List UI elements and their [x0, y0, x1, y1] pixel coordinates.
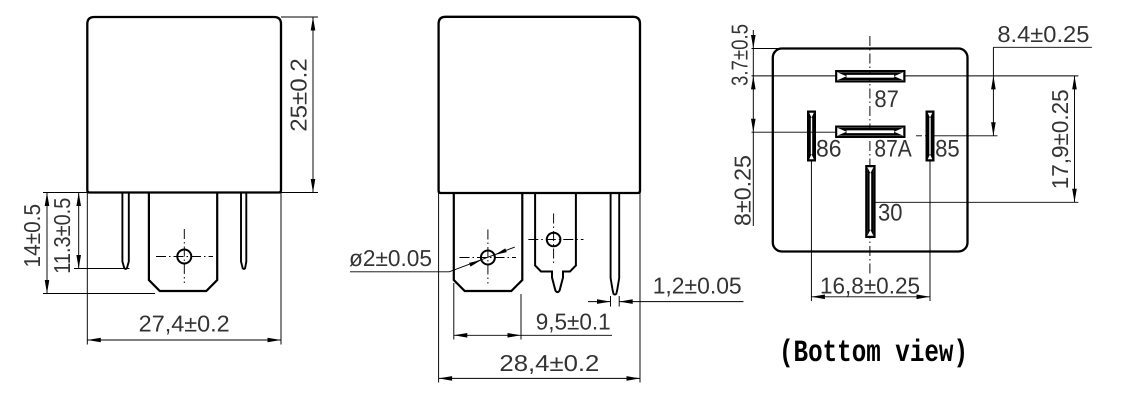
pin with hole side view [535, 193, 576, 292]
dimension line 16.8 [811, 296, 930, 298]
svg-text:17,9±0.25: 17,9±0.25 [1047, 89, 1073, 189]
extension line top edge left [752, 48, 780, 50]
terminal tab side view [454, 193, 523, 291]
svg-text:(Bottom view): (Bottom view) [779, 336, 968, 371]
extension lines 27.4 dim [87, 193, 281, 345]
svg-text:25±0.2: 25±0.2 [286, 58, 312, 132]
svg-text:86: 86 [816, 136, 842, 163]
svg-text:27,4±0.2: 27,4±0.2 [139, 311, 230, 337]
centerlines middle pin hole [528, 239, 583, 241]
pin front-right thin [241, 193, 246, 269]
svg-text:87: 87 [874, 86, 899, 113]
slot 85 [927, 112, 934, 161]
dimension line 25 [312, 17, 314, 193]
svg-text:30: 30 [878, 200, 903, 227]
dimension line 17.9 [1074, 76, 1076, 202]
dimension line 1.2 with outside arrows [588, 301, 744, 303]
svg-text:11.3±0.5: 11.3±0.5 [49, 198, 75, 274]
pin side-view thin right [611, 193, 620, 295]
dimension line left column 3.7 and 8 [752, 30, 754, 226]
extension line body bottom left [43, 192, 87, 194]
extension lines 25 dim [281, 17, 318, 193]
dimension line 14 [46, 193, 48, 294]
svg-text:1,2±0.05: 1,2±0.05 [653, 273, 742, 299]
svg-text:3.7±0.5: 3.7±0.5 [727, 24, 753, 86]
pin front-left thin [122, 193, 128, 269]
svg-text:8.4±0.25: 8.4±0.25 [997, 21, 1089, 47]
slot 30 [866, 166, 874, 237]
terminal tab front center [149, 193, 217, 292]
hole in front tab [177, 250, 191, 264]
extension lines 1.2 dim [611, 296, 620, 307]
slot 87A [836, 127, 904, 138]
dimension line 28.4 [439, 377, 640, 379]
dimension line 11.3 [78, 193, 80, 269]
hole in side tab [481, 251, 495, 265]
svg-text:28,4±0.2: 28,4±0.2 [499, 350, 599, 376]
centerlines side tab hole [460, 257, 517, 259]
slot 87 [836, 71, 904, 82]
svg-text:85: 85 [935, 136, 960, 163]
extension line 85 row center [916, 135, 927, 137]
svg-text:9,5±0.1: 9,5±0.1 [536, 309, 611, 335]
slot 86 [808, 112, 815, 161]
svg-text:8±0.25: 8±0.25 [730, 155, 756, 226]
extension lines 16.8 dim [811, 161, 930, 302]
extension lines 9.5 dim [454, 283, 521, 340]
centerline vertical front tab hole [183, 229, 185, 283]
extension lines 28.4 dim [439, 193, 640, 383]
relay base bottom view [773, 49, 968, 252]
extension line 87A slot center [752, 131, 837, 133]
relay body front view [87, 17, 281, 193]
extension line 30 slot center [875, 201, 1079, 203]
extension line 87 slot center [752, 75, 1079, 77]
svg-text:87A: 87A [874, 136, 911, 163]
svg-text:ø2±0.05: ø2±0.05 [349, 245, 432, 271]
leader arrows at circle [469, 248, 507, 266]
vertical centerline bottom view [869, 36, 871, 274]
svg-text:14±0.5: 14±0.5 [19, 204, 45, 267]
leader line hole diameter [350, 247, 515, 272]
centerline horizontal front tab hole [156, 256, 213, 258]
extension line tab bottom level [43, 293, 155, 295]
dimension line 27.4 [87, 339, 281, 341]
hole in middle pin [547, 233, 561, 247]
extension line pin tip level [74, 268, 130, 270]
dimension line 9.5 [454, 334, 612, 336]
dimension 8.4 leader [993, 47, 1092, 136]
svg-text:16,8±0.25: 16,8±0.25 [820, 273, 920, 299]
relay body side view [439, 17, 640, 193]
